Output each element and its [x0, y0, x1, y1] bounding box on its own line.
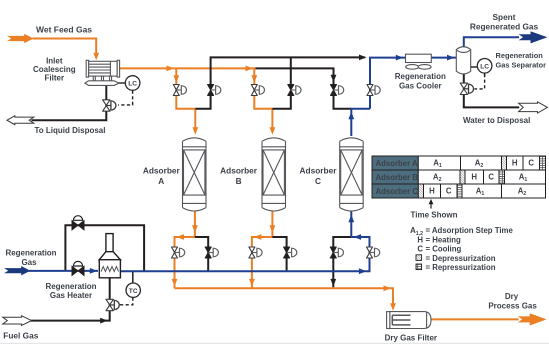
flow arrowhead into heater: [90, 268, 98, 274]
adsorber C vessel: [340, 138, 364, 211]
svg-text:C: C: [315, 176, 321, 186]
wire: cooler outlet to separator: [431, 57, 456, 59]
svg-text:Regeneration: Regeneration: [45, 282, 96, 291]
legend depressurization swatch: [416, 255, 422, 261]
valve: regeneration gas inlet globe valve: [72, 261, 84, 275]
svg-text:Water to Disposal: Water to Disposal: [463, 116, 530, 125]
valve V7 adsorber A product (open): [172, 247, 185, 258]
flow arrowhead on regen header before valve V12: [359, 268, 367, 274]
wire: adsorber B bottom to closed valve V10 and regen header: [272, 237, 286, 271]
flow arrowhead toward valve V9: [254, 234, 262, 240]
flow arrowhead on product header: [384, 285, 392, 291]
regeneration gas cooler: [406, 54, 432, 69]
flow arrowhead on fuel gas line: [100, 318, 108, 324]
flow arrowhead below valve V11: [330, 279, 336, 287]
inlet coalescing filter: [85, 60, 120, 85]
valve V9 adsorber B product (open): [249, 247, 262, 258]
svg-text:C: C: [446, 187, 452, 196]
svg-text:Gas Cooler: Gas Cooler: [399, 82, 442, 91]
svg-text:Regeneration: Regeneration: [395, 72, 446, 81]
adsorber B vessel: [262, 138, 286, 211]
flow arrowhead on upper regen header (black): [359, 55, 367, 61]
dashed signal LC to filter drain valve: [118, 91, 133, 105]
svg-text:Regeneration: Regeneration: [496, 51, 544, 60]
svg-text:H: H: [429, 187, 435, 196]
instrument LC level controller (filter): [119, 76, 140, 91]
wire: black feed header section to closed valve V5: [256, 68, 334, 85]
flow arrowhead below adsorber A: [192, 225, 198, 233]
node: Wet Feed Gas inlet block arrow: [7, 34, 33, 43]
row A cells: [418, 156, 460, 170]
row C cells: [418, 184, 423, 198]
dashed signal fuel valve to TC: [120, 298, 133, 305]
svg-text:To Liquid Disposal: To Liquid Disposal: [35, 126, 106, 135]
valve: filter drain control valve: [103, 100, 116, 111]
svg-text:= Cooling: = Cooling: [426, 245, 462, 254]
valve V10 adsorber B regen inlet (closed): [284, 247, 297, 258]
wire: hot regeneration gas header to valve V12 and adsorber C bottom: [120, 237, 369, 271]
svg-text:Adsorber: Adsorber: [143, 166, 181, 176]
svg-text:H: H: [417, 235, 423, 244]
wire: adsorber A bottom outlet: [175, 210, 195, 288]
wire: feed drop into adsorber B top: [271, 109, 273, 131]
svg-text:Regenerated Gas: Regenerated Gas: [470, 22, 539, 32]
instrument TC temperature controller: [126, 283, 140, 297]
adsorber A vessel: [183, 138, 207, 211]
adsorption cycle table: [372, 156, 546, 198]
svg-text:Gas Heater: Gas Heater: [50, 291, 92, 300]
flow arrowhead below valve V7: [172, 279, 178, 287]
svg-text:B: B: [236, 176, 242, 186]
regeneration gas separator vessel: [456, 47, 470, 74]
flow arrowhead into dry gas filter: [390, 303, 396, 311]
flow arrowhead into adsorber B: [270, 127, 276, 135]
valve V5 adsorber C feed (closed): [331, 85, 344, 96]
wire: valve V4 to adsorber B top tee: [272, 95, 290, 109]
node: Dry Process Gas outlet block arrow: [518, 313, 547, 325]
flow arrowhead below adsorber B: [270, 225, 276, 233]
svg-text:Dry Gas Filter: Dry Gas Filter: [385, 334, 437, 343]
wire: orange dry product header to dry gas filter: [175, 288, 394, 308]
svg-text:LC: LC: [480, 63, 489, 70]
table text: [376, 159, 535, 198]
wire: adsorber B bottom outlet: [252, 210, 273, 288]
node: Water to Disposal outlet arrow: [519, 102, 548, 113]
flow arrowhead above valve V3: [251, 75, 257, 83]
valve: separator drain control valve: [460, 83, 473, 94]
legend text block: [410, 210, 513, 272]
flow arrowhead into filter top: [93, 53, 99, 61]
wire: regeneration gas inlet to heater: [29, 270, 99, 272]
svg-text:Filter: Filter: [45, 74, 65, 83]
svg-text:= Repressurization: = Repressurization: [426, 263, 496, 272]
node: Fuel Gas inlet arrow: [3, 316, 32, 326]
flow arrowhead up out of adsorber C top: [348, 112, 354, 120]
wire: valve V5 to adsorber C top tee: [334, 95, 352, 109]
svg-text:Gas Separator: Gas Separator: [496, 61, 547, 70]
wire: adsorber C bottom to closed valve V11 down to product header: [333, 237, 351, 287]
svg-text:= Depressurization: = Depressurization: [426, 254, 496, 263]
wire: orange feed header from filter outlet: [120, 67, 257, 69]
valve V8 adsorber A regen inlet (closed): [205, 247, 218, 258]
wire: separator overhead to spent regenerated gas: [464, 37, 519, 47]
svg-text:Time Shown: Time Shown: [411, 210, 458, 219]
flow arrowhead on feed header 1: [167, 66, 175, 72]
svg-text:C: C: [417, 245, 423, 254]
svg-text:Adsorber B: Adsorber B: [376, 173, 419, 182]
valve: fuel gas control valve: [106, 299, 119, 310]
legend repressurization swatch: [416, 264, 422, 270]
flow arrowhead up into adsorber C bottom: [348, 215, 354, 223]
svg-text:Adsorber: Adsorber: [300, 166, 338, 176]
flow arrowhead into separator: [447, 55, 455, 61]
svg-text:Fuel Gas: Fuel Gas: [3, 331, 38, 341]
svg-text:H: H: [512, 159, 518, 168]
flow arrowhead above valve V1: [173, 75, 179, 83]
svg-text:H: H: [471, 173, 477, 182]
row B cells: [418, 170, 460, 184]
wire: wet feed gas inlet line: [33, 39, 97, 54]
wire: adsorber A bottom to closed valve V8 and regen header: [195, 237, 208, 271]
wire: heater bypass loop with bypass valve: [65, 225, 144, 271]
svg-text:Adsorber A: Adsorber A: [376, 159, 419, 168]
valve V1 adsorber A feed (open): [173, 85, 186, 96]
node: Spent Regenerated Gas outlet block arrow: [519, 31, 548, 43]
svg-text:Process Gas: Process Gas: [488, 301, 537, 310]
svg-text:Adsorber: Adsorber: [220, 166, 258, 176]
instrument LC level controller (separator): [471, 59, 492, 77]
flow arrowhead toward adsorber C bottom tee: [354, 234, 362, 240]
valve: heater bypass globe valve: [72, 216, 84, 230]
bottom page rule: [0, 342, 549, 344]
table row header Adsorber A: [372, 156, 418, 170]
svg-text:Dry: Dry: [505, 292, 519, 301]
wire: fuel gas line to heater: [31, 278, 110, 321]
wire: feed drop into adsorber A top: [194, 109, 196, 131]
svg-text:LC: LC: [128, 81, 137, 88]
wire: dry gas filter outlet: [431, 318, 519, 320]
table row header Adsorber B: [372, 170, 418, 184]
flow arrowhead into adsorber A: [192, 127, 198, 135]
dry gas filter: [387, 312, 431, 329]
svg-text:A: A: [158, 176, 164, 186]
valve V12 adsorber C regen inlet (open): [367, 247, 380, 258]
node: To Liquid Disposal outlet arrow: [7, 116, 34, 125]
regeneration gas heater: [99, 234, 120, 278]
wire: upper regeneration outlet header (black): [211, 57, 365, 85]
svg-text:Regeneration: Regeneration: [5, 249, 56, 258]
dashed signal LC to separator drain valve: [474, 74, 484, 89]
wire: filter sump drain to liquid disposal: [32, 85, 107, 120]
svg-text:= Heating: = Heating: [426, 235, 462, 244]
valve V3 adsorber B feed (open): [251, 85, 264, 96]
svg-text:Wet Feed Gas: Wet Feed Gas: [36, 24, 92, 34]
svg-text:C: C: [528, 159, 534, 168]
flow arrowhead on feed header 2: [246, 66, 254, 72]
wire: spent gas line into adsorber C top: [351, 109, 370, 136]
svg-text:= Adsorption Step Time: = Adsorption Step Time: [426, 226, 514, 235]
wire: feed branch to valve V3 / adsorber B: [254, 68, 272, 108]
wire: adsorber C bottom riser: [350, 211, 352, 238]
valve V2 adsorber A regen outlet (closed): [208, 85, 221, 96]
svg-text:Gas: Gas: [21, 258, 37, 267]
svg-text:TC: TC: [129, 288, 138, 295]
valve V11 adsorber C product (closed): [330, 247, 343, 258]
valve V4 adsorber B regen outlet (closed): [288, 85, 301, 96]
wire: separator drain to water disposal: [464, 74, 519, 107]
node: Regeneration Gas inlet block arrow: [4, 266, 30, 275]
wire: valve V4 riser: [290, 57, 292, 85]
flow arrowhead above closed valve V5: [331, 75, 337, 83]
time shown pointer arrow: [429, 199, 434, 209]
wire: TC sensing connection to regen line: [132, 271, 134, 283]
flow arrowhead below valve V9: [249, 279, 255, 287]
wire: valve V2 to adsorber A top tee: [195, 95, 210, 109]
valve V6 adsorber C regen outlet (open): [367, 85, 380, 96]
svg-text:Adsorber C: Adsorber C: [376, 187, 419, 196]
wire: regeneration outlet riser valve V6 (blue): [370, 58, 406, 109]
flow arrowhead toward valve V7: [177, 234, 185, 240]
flow arrowhead into regeneration gas cooler: [396, 55, 404, 61]
table row header Adsorber C: [372, 184, 418, 198]
wire: feed branch to valve V1 / adsorber A: [176, 68, 195, 108]
svg-text:Spent: Spent: [492, 12, 515, 22]
svg-text:C: C: [488, 173, 494, 182]
